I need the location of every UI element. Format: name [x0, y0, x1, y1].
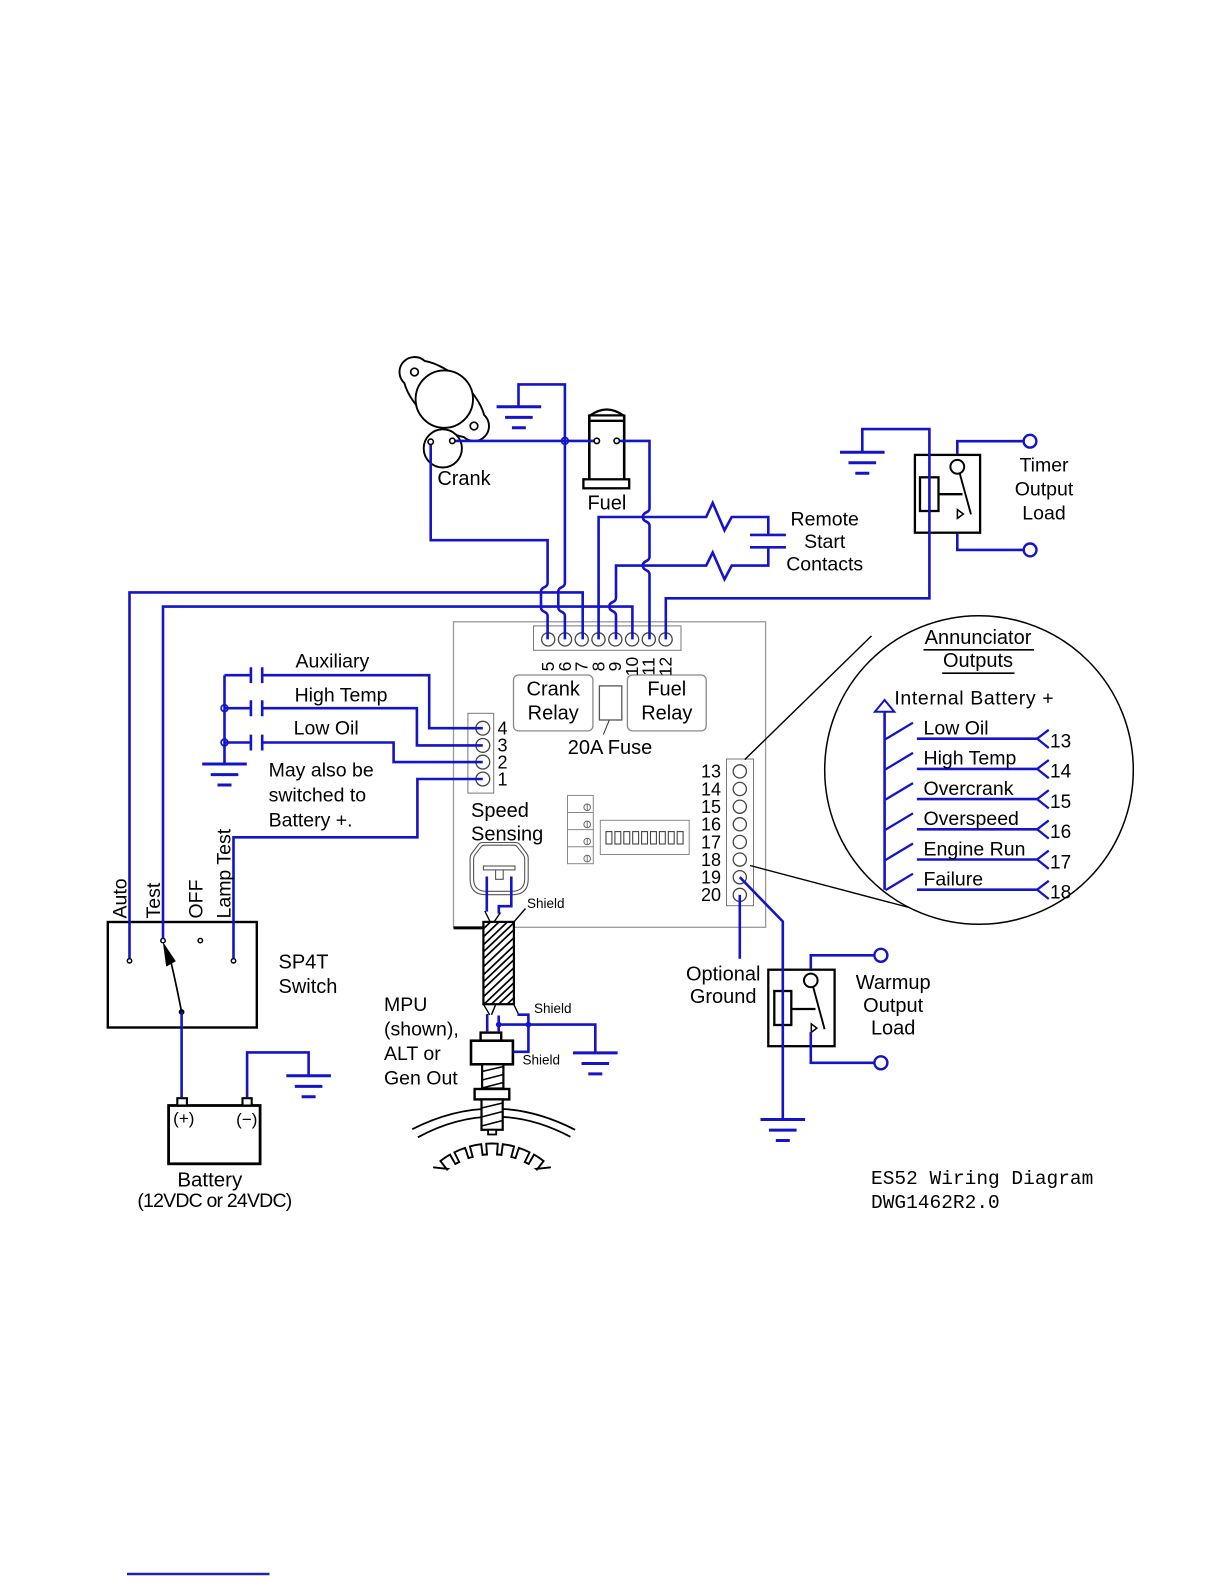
MPU threaded shaft upper: [482, 1064, 503, 1088]
fuse leader line: [603, 720, 609, 734]
svg-text:High Temp: High Temp: [295, 685, 388, 707]
battery terminal +: [177, 1098, 187, 1105]
fuse F1 20A: [599, 686, 621, 720]
terminal 20: [733, 888, 746, 901]
terminal 19: [733, 871, 746, 884]
svg-text:switched to: switched to: [269, 785, 367, 807]
warmup relay contact throw: [811, 1024, 817, 1033]
svg-text:High Temp: High Temp: [924, 748, 1017, 770]
ring gear: [433, 1144, 551, 1170]
warmup relay coil: [774, 991, 791, 1025]
crank solenoid body: [416, 370, 473, 427]
fuel solenoid base: [583, 479, 629, 488]
terminal 1: [476, 772, 490, 786]
terminal 3: [476, 739, 490, 753]
junction node low oil: [221, 739, 228, 746]
svg-text:Load: Load: [1022, 503, 1065, 525]
wire lamp test to pin 1: [234, 779, 483, 959]
warmup relay contact arm: [813, 987, 825, 1029]
svg-text:Lamp Test: Lamp Test: [214, 828, 236, 918]
internal terminal block: [568, 795, 594, 863]
svg-text:Internal Battery +: Internal Battery +: [894, 688, 1054, 710]
svg-text:Crank: Crank: [527, 679, 581, 701]
cable conductors below shield: [487, 1014, 499, 1032]
annunciator bus: [883, 712, 886, 890]
wire junction to pin 6: [558, 441, 565, 640]
svg-text:Load: Load: [871, 1018, 916, 1040]
ground near crank: [497, 407, 542, 428]
junction node high temp: [221, 705, 228, 712]
connector key (T): [483, 866, 515, 870]
switch position OFF: [198, 938, 202, 942]
svg-text:Battery +.: Battery +.: [269, 810, 353, 832]
wire auxiliary to pin 4: [263, 675, 482, 728]
fuel relay U-FR: [627, 675, 706, 731]
terminal 7: [575, 633, 588, 646]
ground for contact bus: [202, 764, 247, 785]
terminal 10: [626, 633, 639, 646]
terminal strip 13-20: [727, 759, 754, 906]
timer relay coil: [920, 477, 939, 511]
fuel solenoid dome: [590, 410, 623, 416]
timer relay link: [939, 493, 963, 495]
svg-text:MPU: MPU: [384, 994, 427, 1016]
svg-text:Shield: Shield: [523, 1053, 561, 1068]
svg-text:ES52 Wiring Diagram: ES52 Wiring Diagram: [871, 1168, 1093, 1190]
svg-text:Output: Output: [1015, 479, 1074, 501]
magnifier line bottom: [750, 866, 920, 911]
wire fuel right to pin 11: [617, 441, 650, 640]
terminal 12: [659, 633, 672, 646]
svg-text:Annunciator: Annunciator: [925, 627, 1032, 649]
cable funnel bottom: [483, 1004, 518, 1015]
wire warmup contact to load terminal A: [811, 955, 875, 969]
svg-text:Outputs: Outputs: [943, 650, 1013, 672]
terminal 6: [558, 633, 571, 646]
svg-text:(−): (−): [236, 1110, 257, 1129]
svg-text:(+): (+): [173, 1109, 194, 1128]
shield drain wire to ground: [499, 1025, 596, 1052]
timer load terminal B: [1024, 544, 1037, 557]
svg-text:Overspeed: Overspeed: [924, 808, 1019, 830]
svg-text:Test: Test: [143, 882, 165, 918]
svg-text:20A Fuse: 20A Fuse: [568, 737, 653, 759]
svg-text:Warmup: Warmup: [856, 972, 931, 994]
svg-text:Crank: Crank: [437, 468, 491, 490]
DIP switch S1: [600, 820, 689, 854]
wire Auto to pin 7: [130, 592, 583, 958]
svg-text:Speed: Speed: [471, 800, 529, 822]
svg-text:Output: Output: [863, 995, 923, 1017]
svg-text:Sensing: Sensing: [471, 824, 543, 846]
svg-text:Timer: Timer: [1019, 455, 1069, 477]
switch position Test: [161, 938, 165, 942]
MPU nut: [475, 1089, 510, 1099]
MPU body: [471, 1041, 513, 1065]
svg-text:12: 12: [655, 657, 675, 676]
svg-text:20: 20: [701, 885, 721, 905]
svg-text:DWG1462R2.0: DWG1462R2.0: [871, 1192, 1000, 1214]
engine housing arcs: [412, 1109, 575, 1130]
timer load terminal A: [1024, 435, 1037, 448]
terminal 15: [733, 800, 746, 813]
wire timer contact to load terminal A: [957, 441, 1023, 454]
svg-text:Remote: Remote: [791, 509, 859, 531]
ground near timer relay: [840, 452, 885, 473]
warmup relay link: [791, 1008, 815, 1010]
wire switch common to battery +: [180, 1012, 183, 1098]
SP4T switch S2: [108, 922, 257, 1028]
svg-text:Engine Run: Engine Run: [924, 838, 1026, 860]
wire pin 8 to remote start upper: [599, 503, 769, 640]
svg-text:Gen Out: Gen Out: [384, 1068, 458, 1090]
ground below warmup relay: [761, 1120, 806, 1141]
auxiliary contact: [225, 667, 263, 683]
switch arm arrowhead: [163, 942, 176, 967]
speed sensing connector J1: [470, 843, 528, 895]
svg-text:Relay: Relay: [528, 703, 579, 725]
board edge black segment: [454, 926, 484, 929]
shield stub wire: [513, 1015, 528, 1052]
svg-text:OFF: OFF: [186, 879, 208, 918]
wire high temp to pin 3: [263, 708, 482, 745]
MPU tip: [488, 1130, 496, 1135]
bottom margin link line: [127, 1573, 270, 1575]
terminal strip 4-1: [468, 713, 494, 793]
timer relay contact throw: [957, 510, 963, 519]
terminal 9: [609, 633, 622, 646]
screw terminal: [584, 804, 591, 811]
svg-text:Contacts: Contacts: [786, 554, 863, 576]
svg-text:16: 16: [1050, 822, 1071, 843]
contact bus to ground: [223, 675, 226, 762]
timer relay contact arm: [960, 473, 971, 514]
screw terminal: [584, 855, 591, 862]
svg-text:(shown),: (shown),: [384, 1019, 459, 1041]
svg-text:18: 18: [1050, 883, 1071, 904]
svg-text:Battery: Battery: [177, 1169, 243, 1192]
svg-text:Shield: Shield: [534, 1001, 572, 1016]
annunciator output 17 switch: [886, 844, 914, 861]
svg-text:Low Oil: Low Oil: [294, 718, 359, 740]
crank terminal rings: [428, 439, 433, 444]
speed sensing wires: [487, 877, 512, 914]
terminal 8: [592, 633, 605, 646]
shield stub junction: [526, 1022, 532, 1028]
cable funnel top: [485, 911, 501, 922]
wire timer throw to load terminal B: [957, 534, 1023, 550]
timer relay contact pivot: [950, 460, 964, 474]
high temp contact: [225, 700, 263, 716]
timer relay K1: [915, 455, 980, 533]
switch position Lamp Test: [231, 959, 235, 963]
crank relay U-CR: [514, 675, 593, 731]
screw terminal: [584, 838, 591, 845]
terminal strip 5-12: [534, 626, 682, 650]
svg-text:Relay: Relay: [641, 703, 692, 725]
wire ground loop to junction: [519, 384, 565, 441]
crank solenoid lower can: [424, 429, 462, 467]
wire crank left terminal to pin 5: [431, 443, 548, 639]
terminal 13: [733, 765, 746, 778]
ground for shield drain: [573, 1053, 618, 1074]
annunciator output 18 switch: [886, 874, 914, 891]
svg-text:Ground: Ground: [690, 986, 757, 1008]
svg-text:15: 15: [1050, 792, 1071, 813]
terminal 5: [542, 633, 555, 646]
svg-text:Failure: Failure: [924, 869, 984, 891]
svg-text:Switch: Switch: [279, 976, 338, 998]
fuel solenoid body: [589, 415, 624, 480]
terminal 4: [476, 721, 490, 735]
terminal 2: [476, 755, 490, 769]
svg-text:May also be: May also be: [269, 760, 374, 782]
warmup load terminal B: [874, 1056, 887, 1069]
battery B1: [169, 1106, 261, 1164]
svg-text:Fuel: Fuel: [647, 679, 686, 701]
svg-text:Shield: Shield: [527, 896, 565, 911]
wire low oil to pin 2: [263, 743, 482, 763]
screw terminal: [584, 821, 591, 828]
MPU threaded shaft lower: [482, 1099, 503, 1129]
shield leader top: [514, 909, 526, 922]
terminal 17: [733, 835, 746, 848]
svg-text:13: 13: [1050, 732, 1071, 753]
remote start contact plates: [750, 535, 786, 547]
wire remote start lower to pin 9: [609, 547, 768, 639]
svg-text:ALT or: ALT or: [384, 1043, 441, 1065]
switch position Auto: [127, 959, 131, 963]
annunciator output 14 switch: [886, 753, 914, 770]
annunciator circle: [825, 616, 1134, 925]
wire pin 12 to timer coil and ground: [666, 429, 930, 639]
svg-text:Start: Start: [804, 531, 846, 553]
switch arm: [169, 954, 182, 1012]
svg-text:Low Oil: Low Oil: [924, 718, 989, 740]
shield drain junction: [496, 1022, 502, 1028]
svg-text:(12VDC or 24VDC): (12VDC or 24VDC): [137, 1190, 291, 1212]
controller board outline: [454, 622, 766, 928]
wire crank right to fuel left: [452, 440, 597, 443]
wire pin 19 through warmup coil to ground: [740, 877, 783, 1118]
MPU connector cap: [481, 1033, 502, 1041]
terminal 18: [733, 853, 746, 866]
svg-text:14: 14: [1050, 762, 1072, 783]
annunciator output 16 switch: [886, 813, 914, 830]
wire pin 20 optional ground stub: [738, 895, 741, 959]
annunciator output 13 switch: [886, 723, 914, 740]
internal battery arrow: [875, 700, 894, 712]
svg-text:Auto: Auto: [110, 878, 132, 918]
terminal 11: [642, 633, 655, 646]
svg-text:Auxiliary: Auxiliary: [296, 651, 370, 673]
junction node: [562, 438, 569, 445]
warmup relay K2: [768, 970, 834, 1046]
warmup load terminal A: [874, 949, 887, 962]
terminal 14: [733, 782, 746, 795]
wire warmup throw to load terminal B: [811, 1032, 875, 1063]
svg-text:Overcrank: Overcrank: [924, 778, 1014, 800]
crank solenoid mounting plate: [400, 357, 490, 441]
switch common pole: [179, 1009, 185, 1015]
svg-text:SP4T: SP4T: [279, 952, 329, 974]
svg-text:Optional: Optional: [686, 963, 761, 985]
ground near battery: [286, 1076, 331, 1097]
warmup relay contact pivot: [804, 974, 818, 988]
terminal 16: [733, 818, 746, 831]
wire Test to pin 10: [163, 607, 632, 939]
svg-text:Fuel: Fuel: [587, 493, 626, 515]
annunciator output 15 switch: [886, 783, 914, 800]
fuel terminal rings: [594, 438, 599, 443]
low oil contact: [225, 735, 263, 751]
wire battery - to ground: [247, 1052, 309, 1097]
crank plate hole 1: [411, 368, 419, 376]
svg-text:1: 1: [498, 769, 508, 789]
crank plate hole 2: [470, 422, 478, 430]
magnifier line top: [745, 636, 872, 760]
svg-text:17: 17: [1050, 852, 1071, 873]
battery terminal -: [243, 1098, 252, 1105]
